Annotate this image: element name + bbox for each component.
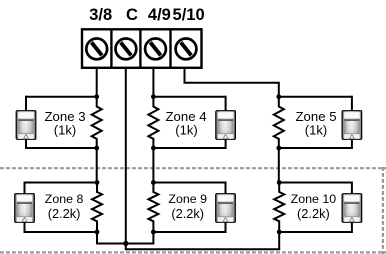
junction node zone10 top [277, 180, 282, 185]
wire zone10 sensor stub bottom [351, 222, 353, 233]
junction node common bus [123, 241, 128, 246]
wire zone10 loop top [279, 182, 352, 184]
wire terminal 3/8 stub [96, 68, 98, 97]
wire zone9 loop top [153, 182, 225, 184]
svg-text:(2.2k): (2.2k) [171, 206, 204, 221]
resistor zone9 2.2k [148, 183, 158, 233]
terminal block divider 1 [110, 29, 112, 68]
terminal block outline [82, 29, 202, 68]
wire common C vertical [125, 68, 127, 250]
svg-text:(1k): (1k) [54, 122, 76, 137]
junction node zone5 top [276, 94, 281, 99]
svg-text:3/8: 3/8 [89, 6, 112, 24]
wire zone4 loop bottom [153, 147, 225, 149]
wire zone8 to common bus [97, 232, 126, 244]
svg-text:(1k): (1k) [175, 122, 197, 137]
dashed panel divider (middle) [0, 167, 386, 169]
junction node zone9 top [151, 180, 156, 185]
wire zone8 loop bottom [25, 231, 98, 233]
junction node zone9 bottom [151, 230, 156, 235]
junction node zone4 bottom [151, 146, 156, 151]
junction node zone3 top [94, 94, 99, 99]
sensor zone10 [342, 194, 362, 223]
svg-text:C: C [126, 6, 138, 24]
wire terminal 5/10 route [185, 68, 279, 97]
wire bus to zone9 [126, 232, 154, 244]
resistor zone4 1k [148, 97, 158, 148]
terminal block divider 2 [139, 29, 141, 68]
wire zone10 loop bottom [279, 231, 352, 233]
junction node zone8 bottom [95, 230, 100, 235]
wire link zone5-zone10 [278, 148, 280, 183]
dashed panel border (right) [382, 167, 384, 254]
terminal block divider 3 [169, 29, 171, 68]
wire zone4 sensor stub top [225, 96, 227, 111]
wire zone3 loop bottom [26, 147, 97, 149]
wire link zone3-zone8 [96, 148, 98, 183]
wire zone3 loop top [26, 96, 97, 98]
wire zone5 loop top [279, 96, 352, 98]
sensor zone5 [342, 111, 362, 140]
wire zone8 sensor stub bottom [24, 222, 26, 233]
screw terminal 5/10 [176, 39, 197, 60]
sensor zone8 [15, 194, 35, 223]
wire zone5 sensor stub top [351, 96, 353, 111]
junction node zone5 bottom [276, 146, 281, 151]
wire zone9 sensor stub bottom [225, 222, 227, 233]
svg-text:(2.2k): (2.2k) [297, 206, 330, 221]
svg-text:(2.2k): (2.2k) [48, 206, 81, 221]
svg-text:4/9: 4/9 [148, 6, 171, 24]
resistor zone10 2.2k [274, 183, 284, 233]
wire zone4 sensor stub bottom [225, 138, 227, 149]
wire zone9 sensor stub top [225, 182, 227, 195]
wire terminal 4/9 stub [152, 68, 154, 97]
screw terminal 4/9 [145, 39, 166, 60]
wire zone9 loop bottom [153, 231, 225, 233]
svg-text:Zone 10: Zone 10 [291, 192, 337, 206]
junction node zone10 bottom [277, 230, 282, 235]
sensor zone9 [216, 194, 236, 223]
wire link zone4-zone9 [152, 148, 154, 183]
wire zone8 sensor stub top [24, 182, 26, 195]
resistor zone8 2.2k [92, 183, 102, 233]
svg-text:(1k): (1k) [305, 122, 327, 137]
svg-text:Zone 9: Zone 9 [168, 192, 207, 206]
resistor zone3 1k [92, 97, 102, 148]
sensor zone3 [16, 111, 36, 140]
wire zone5 loop bottom [279, 147, 352, 149]
junction node zone8 top [95, 180, 100, 185]
wire zone10 sensor stub top [351, 182, 353, 195]
wire zone4 loop top [153, 96, 225, 98]
screw terminal C [116, 39, 137, 60]
svg-text:5/10: 5/10 [173, 6, 205, 24]
wire zone3 sensor stub top [25, 96, 27, 111]
wire zone8 loop top [25, 182, 98, 184]
svg-text:Zone 8: Zone 8 [45, 192, 84, 206]
junction node zone4 top [151, 94, 156, 99]
wire lower bus C to zone10 [126, 232, 279, 249]
dashed panel border (bottom) [0, 251, 386, 253]
wire zone5 sensor stub bottom [351, 138, 353, 149]
resistor zone5 1k [274, 97, 284, 148]
junction node zone3 bottom [94, 146, 99, 151]
wire zone3 sensor stub bottom [25, 138, 27, 149]
sensor zone4 [216, 111, 236, 140]
screw terminal 3/8 [86, 39, 107, 60]
